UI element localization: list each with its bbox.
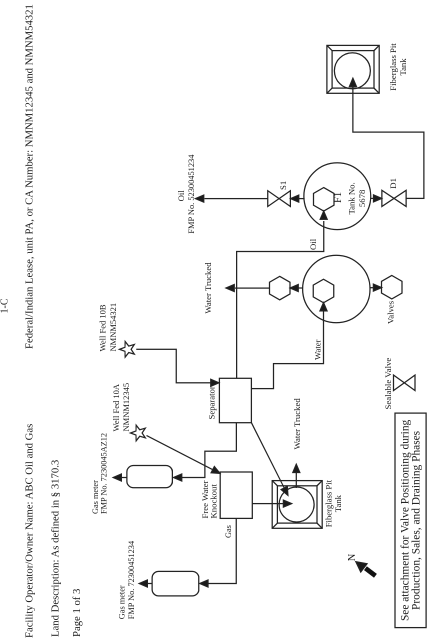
wire well W2 to free water knockout (diagonal) bbox=[147, 436, 213, 470]
note box see attachment bbox=[395, 413, 426, 627]
header facility operator line bbox=[24, 424, 36, 638]
legend sealable valve symbol bbox=[394, 375, 416, 391]
svg-text:Federal/Indian Lease, unit PA,: Federal/Indian Lease, unit PA, or CA Num… bbox=[24, 4, 36, 349]
label sealable valve bbox=[383, 358, 393, 410]
label F1 bbox=[333, 192, 344, 203]
wire header to hexagon V3 bbox=[370, 287, 374, 289]
free water knockout vessel bbox=[220, 472, 252, 518]
arrowhead into hexagon V2 bbox=[290, 285, 298, 292]
hexagon valve V4 inside tank bbox=[313, 188, 334, 212]
label gas meter M2 bbox=[117, 540, 136, 619]
svg-text:Tank: Tank bbox=[398, 58, 408, 76]
arrowhead pit P1 water trucked bbox=[293, 464, 300, 472]
svg-text:Tank No.: Tank No. bbox=[346, 182, 356, 214]
svg-text:D1: D1 bbox=[388, 178, 398, 189]
fiberglass pit tank P1 bbox=[272, 481, 322, 529]
label water trucked (pit P1) bbox=[292, 398, 302, 450]
gas meter M2 body bbox=[152, 571, 199, 596]
label oil sales FMP bbox=[176, 154, 196, 234]
hexagon valve V3 below header bbox=[382, 275, 403, 299]
arrowhead into pit P2 bbox=[349, 78, 356, 86]
wire tank T1 to valve S1 bbox=[298, 198, 305, 200]
label well W2 bbox=[111, 383, 131, 432]
svg-text:Well Fed 10A: Well Fed 10A bbox=[111, 383, 121, 431]
form number 1-C bbox=[0, 298, 10, 313]
svg-text:Page 1 of 3: Page 1 of 3 bbox=[71, 589, 83, 637]
svg-text:NMNM54321: NMNM54321 bbox=[108, 303, 118, 352]
svg-text:Well Fed 10B: Well Fed 10B bbox=[98, 304, 108, 351]
arrowhead into meter M1 bottom bbox=[174, 474, 182, 481]
wire separator gas to meter M1 bbox=[182, 423, 236, 478]
wire knockout water to pit P1 bbox=[252, 503, 283, 505]
label pit tank P1 bbox=[323, 479, 343, 527]
wire separator oil to tank T1 bbox=[237, 221, 324, 378]
label oil line bbox=[308, 238, 318, 250]
wire separator drain to pit P1 (diagonal) bbox=[251, 423, 284, 488]
svg-text:Water Trucked: Water Trucked bbox=[292, 398, 302, 450]
wire meter M2 gas outlet bbox=[148, 583, 152, 585]
well W1 Well Fed 10B (star) bbox=[120, 342, 135, 358]
wire meter M1 gas outlet bbox=[121, 477, 127, 479]
svg-text:Oil: Oil bbox=[176, 190, 186, 202]
wire well W1 to separator bbox=[136, 349, 212, 383]
wire pit P1 water trucked bbox=[295, 473, 297, 488]
arrowhead into separator top bbox=[211, 379, 219, 386]
label pit tank P2 bbox=[388, 43, 408, 91]
label N bbox=[347, 553, 358, 561]
label tank number bbox=[346, 182, 366, 214]
arrowhead into tank hexagon V4 bbox=[320, 211, 327, 219]
arrowhead meter M1 outlet bbox=[113, 474, 121, 481]
svg-text:Fiberglass Pit: Fiberglass Pit bbox=[388, 43, 398, 91]
label separator bbox=[207, 386, 217, 419]
wire hexagon V2 water trucked bbox=[235, 287, 270, 289]
svg-text:S1: S1 bbox=[278, 181, 288, 190]
svg-text:Valves: Valves bbox=[385, 300, 395, 324]
arrowhead into meter M2 bottom bbox=[200, 580, 208, 587]
water distribution header (circle) bbox=[303, 255, 370, 322]
label S1 bbox=[278, 181, 288, 190]
wire header to hexagon V2 bbox=[298, 287, 303, 289]
label gas meter M1 bbox=[91, 433, 108, 514]
svg-text:Fiberglass Pit: Fiberglass Pit bbox=[323, 479, 333, 527]
svg-text:Gas: Gas bbox=[224, 525, 233, 538]
arrowhead meter M2 outlet bbox=[139, 580, 147, 587]
arrowhead oil sales bbox=[196, 195, 204, 202]
svg-text:NMNM12345: NMNM12345 bbox=[121, 383, 131, 432]
wire knockout gas to meter M2 bbox=[208, 518, 236, 583]
header lease number line bbox=[24, 4, 36, 349]
svg-text:Land Description: As defined i: Land Description: As defined in § 3170.3 bbox=[50, 460, 62, 637]
well W2 Well Fed 10A (star) bbox=[131, 425, 146, 441]
arrowhead into hexagon V3 bbox=[373, 284, 381, 291]
arrowhead into header hexagon V1 bbox=[320, 303, 327, 311]
header land description line bbox=[50, 460, 62, 637]
svg-text:Water: Water bbox=[312, 339, 322, 360]
label valves bbox=[385, 300, 395, 324]
svg-text:Tank: Tank bbox=[333, 494, 343, 512]
arrowhead into knockout top bbox=[211, 467, 220, 474]
arrowhead water trucked up bbox=[226, 285, 234, 292]
svg-text:N: N bbox=[347, 553, 358, 561]
valve S1 (sealable) bbox=[268, 191, 291, 207]
arrowhead into pit P1 from separator bbox=[281, 486, 288, 495]
svg-text:1-C: 1-C bbox=[0, 298, 10, 313]
svg-text:F1: F1 bbox=[333, 192, 344, 203]
valve D1 (sealable) bbox=[382, 190, 406, 206]
hexagon valve V1 inside header bbox=[313, 279, 334, 303]
svg-text:Sealable Valve: Sealable Valve bbox=[383, 358, 393, 410]
hexagon valve V2 above header bbox=[269, 276, 290, 300]
wire tank T1 to valve D1 bbox=[371, 197, 374, 199]
svg-text:FMP No. 7230045AZ12: FMP No. 7230045AZ12 bbox=[99, 433, 108, 514]
label well W1 bbox=[98, 303, 119, 352]
label gas line bbox=[224, 525, 233, 538]
fiberglass pit tank P2 bbox=[327, 45, 379, 93]
svg-text:Oil: Oil bbox=[308, 238, 318, 250]
svg-text:5678: 5678 bbox=[357, 189, 367, 207]
note box text bbox=[399, 419, 422, 621]
svg-text:FMP No. 72300451234: FMP No. 72300451234 bbox=[127, 540, 136, 619]
arrowhead into valve D1 bbox=[374, 195, 382, 202]
svg-text:Facility Operator/Owner Name:: Facility Operator/Owner Name: ABC Oil an… bbox=[24, 424, 36, 638]
north arrow bbox=[356, 562, 376, 576]
wire valve S1 oil sales bbox=[205, 198, 268, 200]
arrowhead into pit P1 from knockout bbox=[283, 500, 291, 507]
svg-text:Production, Sales, and Drainin: Production, Sales, and Draining Phases bbox=[411, 430, 423, 610]
oil tank T1 (circle) bbox=[304, 163, 371, 230]
svg-text:See attachment for Valve Posit: See attachment for Valve Positioning dur… bbox=[399, 419, 411, 621]
label water trucked (header) bbox=[203, 262, 213, 314]
wire valve D1 to pit tank P2 bbox=[353, 87, 424, 198]
svg-text:Knockout: Knockout bbox=[209, 484, 219, 519]
label water line bbox=[312, 339, 322, 360]
svg-text:Water Trucked: Water Trucked bbox=[203, 262, 213, 314]
label free water knockout bbox=[200, 480, 219, 518]
gas meter M1 body bbox=[127, 466, 172, 488]
header page number line bbox=[71, 589, 83, 637]
wire separator water to header bbox=[251, 310, 323, 389]
label D1 bbox=[388, 178, 398, 189]
separator vessel bbox=[219, 378, 251, 422]
arrowhead into valve S1 bbox=[291, 195, 299, 202]
svg-text:FMP No. 52300451234: FMP No. 52300451234 bbox=[187, 154, 196, 234]
svg-text:Separator: Separator bbox=[207, 386, 217, 419]
svg-text:Gas meter: Gas meter bbox=[117, 585, 126, 619]
